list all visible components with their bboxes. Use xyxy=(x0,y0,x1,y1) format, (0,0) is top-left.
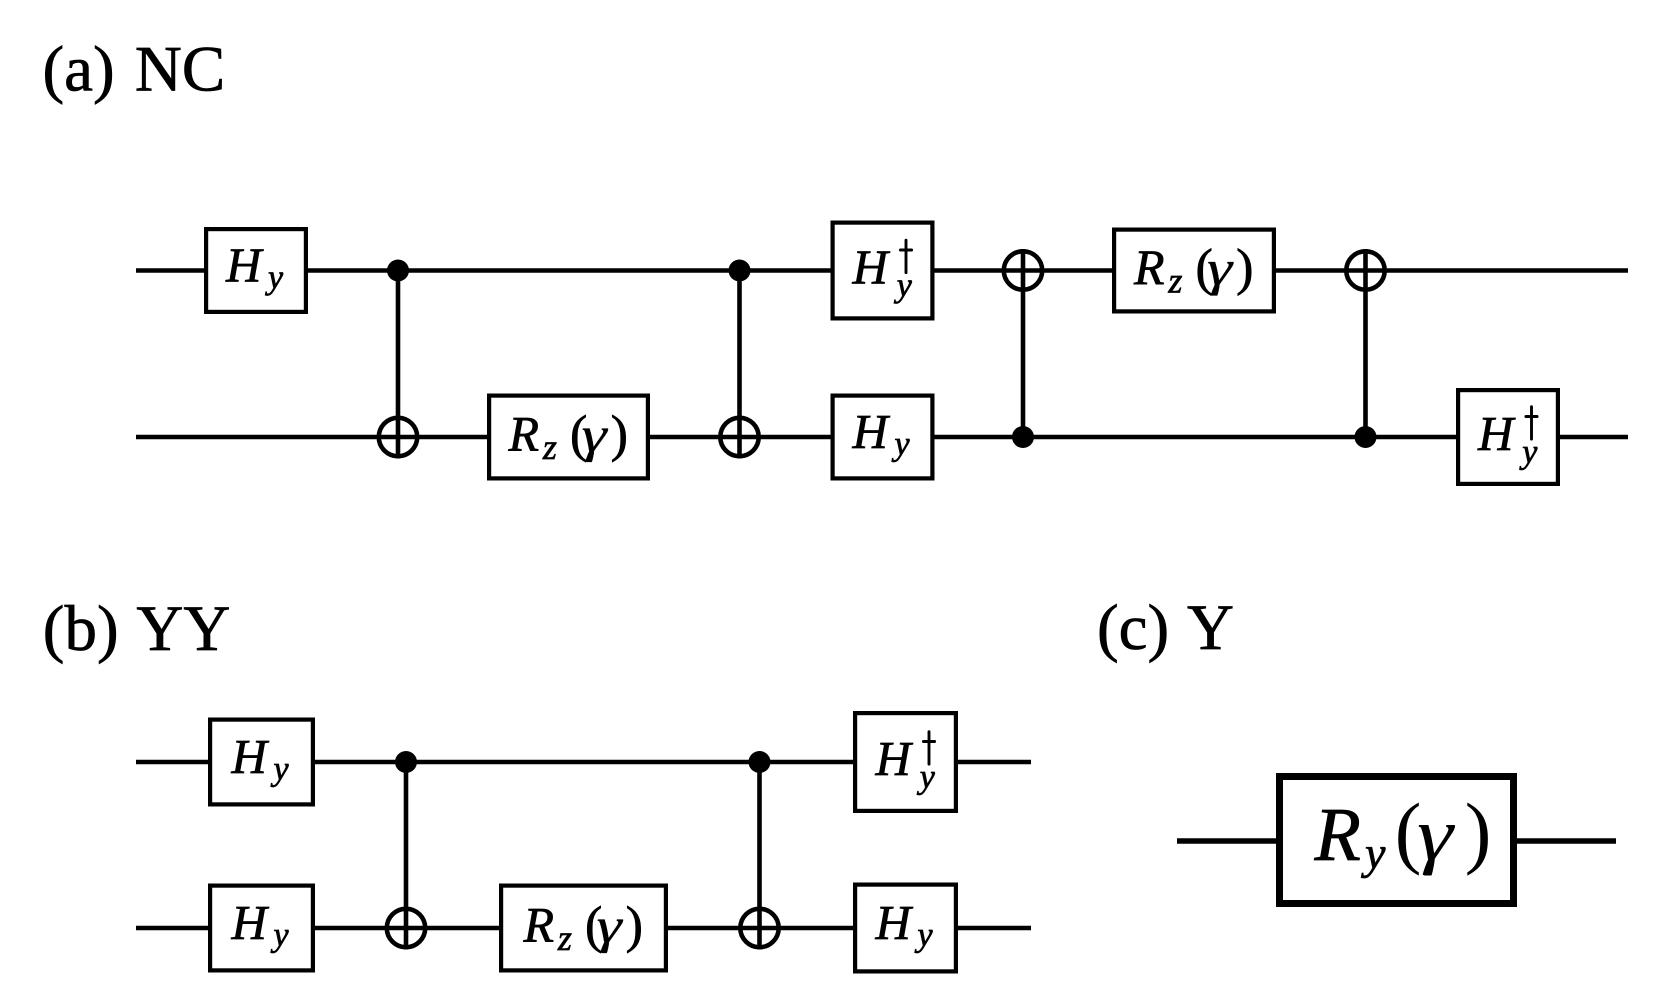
svg-text:H: H xyxy=(231,729,270,784)
svg-text:y: y xyxy=(271,917,290,954)
svg-text:H: H xyxy=(225,238,264,293)
svg-text:H: H xyxy=(852,404,891,459)
svg-text:y: y xyxy=(894,267,913,304)
svg-text:): ) xyxy=(1465,789,1492,877)
svg-text:y: y xyxy=(271,751,290,788)
svg-text:H: H xyxy=(1477,406,1516,461)
svg-text:z: z xyxy=(1167,260,1182,300)
svg-text:H: H xyxy=(852,240,891,295)
svg-text:z: z xyxy=(557,918,572,958)
svg-text:R: R xyxy=(523,896,555,952)
svg-text:y: y xyxy=(265,260,284,297)
svg-text:): ) xyxy=(626,897,643,954)
svg-text:R: R xyxy=(1133,239,1165,295)
svg-text:z: z xyxy=(542,427,557,467)
svg-text:): ) xyxy=(611,406,628,463)
svg-text:(c) Y: (c) Y xyxy=(1097,592,1234,664)
svg-text:): ) xyxy=(1236,240,1253,297)
svg-text:(b) YY: (b) YY xyxy=(43,593,231,665)
svg-text:γ: γ xyxy=(597,898,624,954)
svg-text:R: R xyxy=(508,405,540,461)
svg-text:(a) NC: (a) NC xyxy=(43,34,226,106)
svg-text:y: y xyxy=(915,917,934,954)
svg-text:γ: γ xyxy=(1207,240,1234,296)
svg-text:R: R xyxy=(1314,793,1361,877)
svg-text:H: H xyxy=(875,731,914,786)
svg-text:y: y xyxy=(1519,434,1538,471)
svg-text:y: y xyxy=(892,426,911,463)
svg-text:y: y xyxy=(1361,828,1386,879)
svg-text:H: H xyxy=(231,895,270,950)
svg-text:γ: γ xyxy=(582,407,609,463)
svg-text:y: y xyxy=(917,759,936,796)
svg-text:γ: γ xyxy=(1417,794,1456,877)
svg-text:H: H xyxy=(875,895,914,950)
